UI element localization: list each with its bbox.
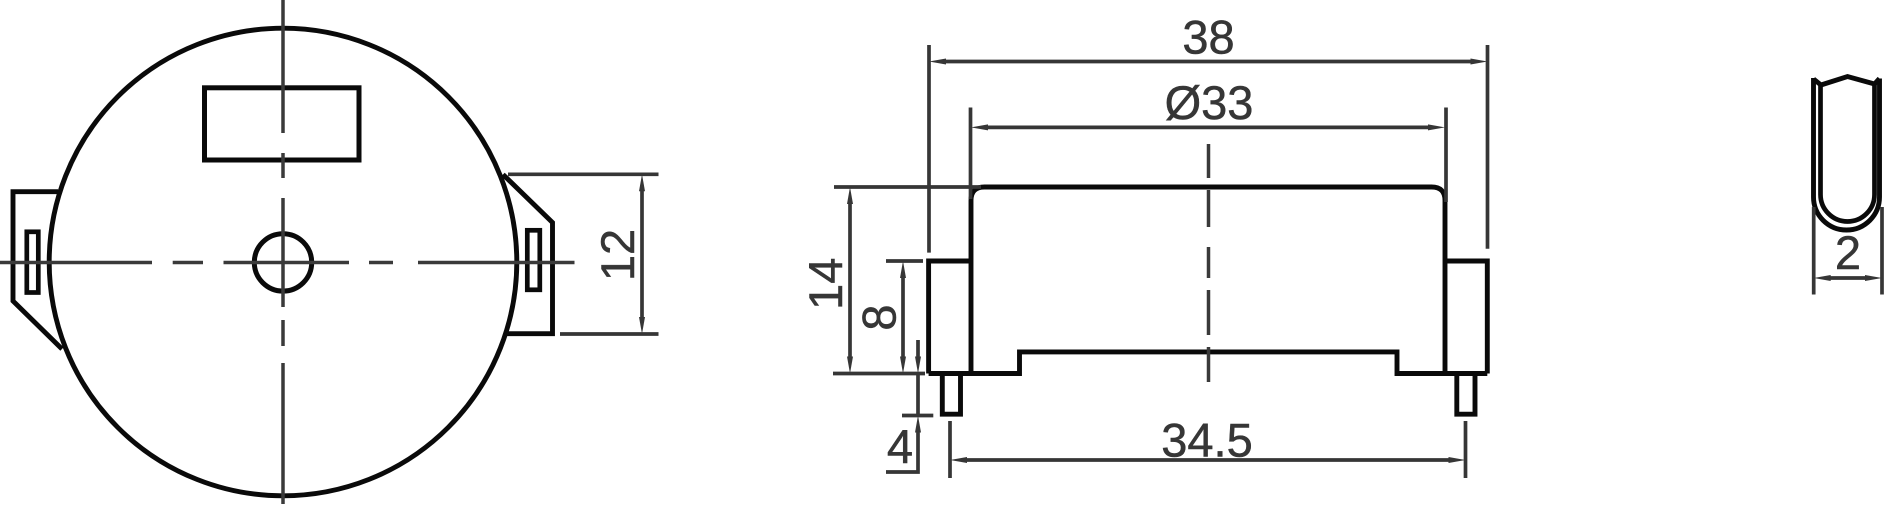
svg-text:12: 12 <box>591 229 644 281</box>
svg-text:Ø33: Ø33 <box>1165 76 1254 129</box>
svg-text:38: 38 <box>1182 11 1234 64</box>
svg-text:2: 2 <box>1835 226 1861 279</box>
svg-text:34.5: 34.5 <box>1161 414 1252 467</box>
svg-text:8: 8 <box>853 304 906 330</box>
svg-text:14: 14 <box>799 258 852 310</box>
svg-text:4: 4 <box>887 420 913 473</box>
